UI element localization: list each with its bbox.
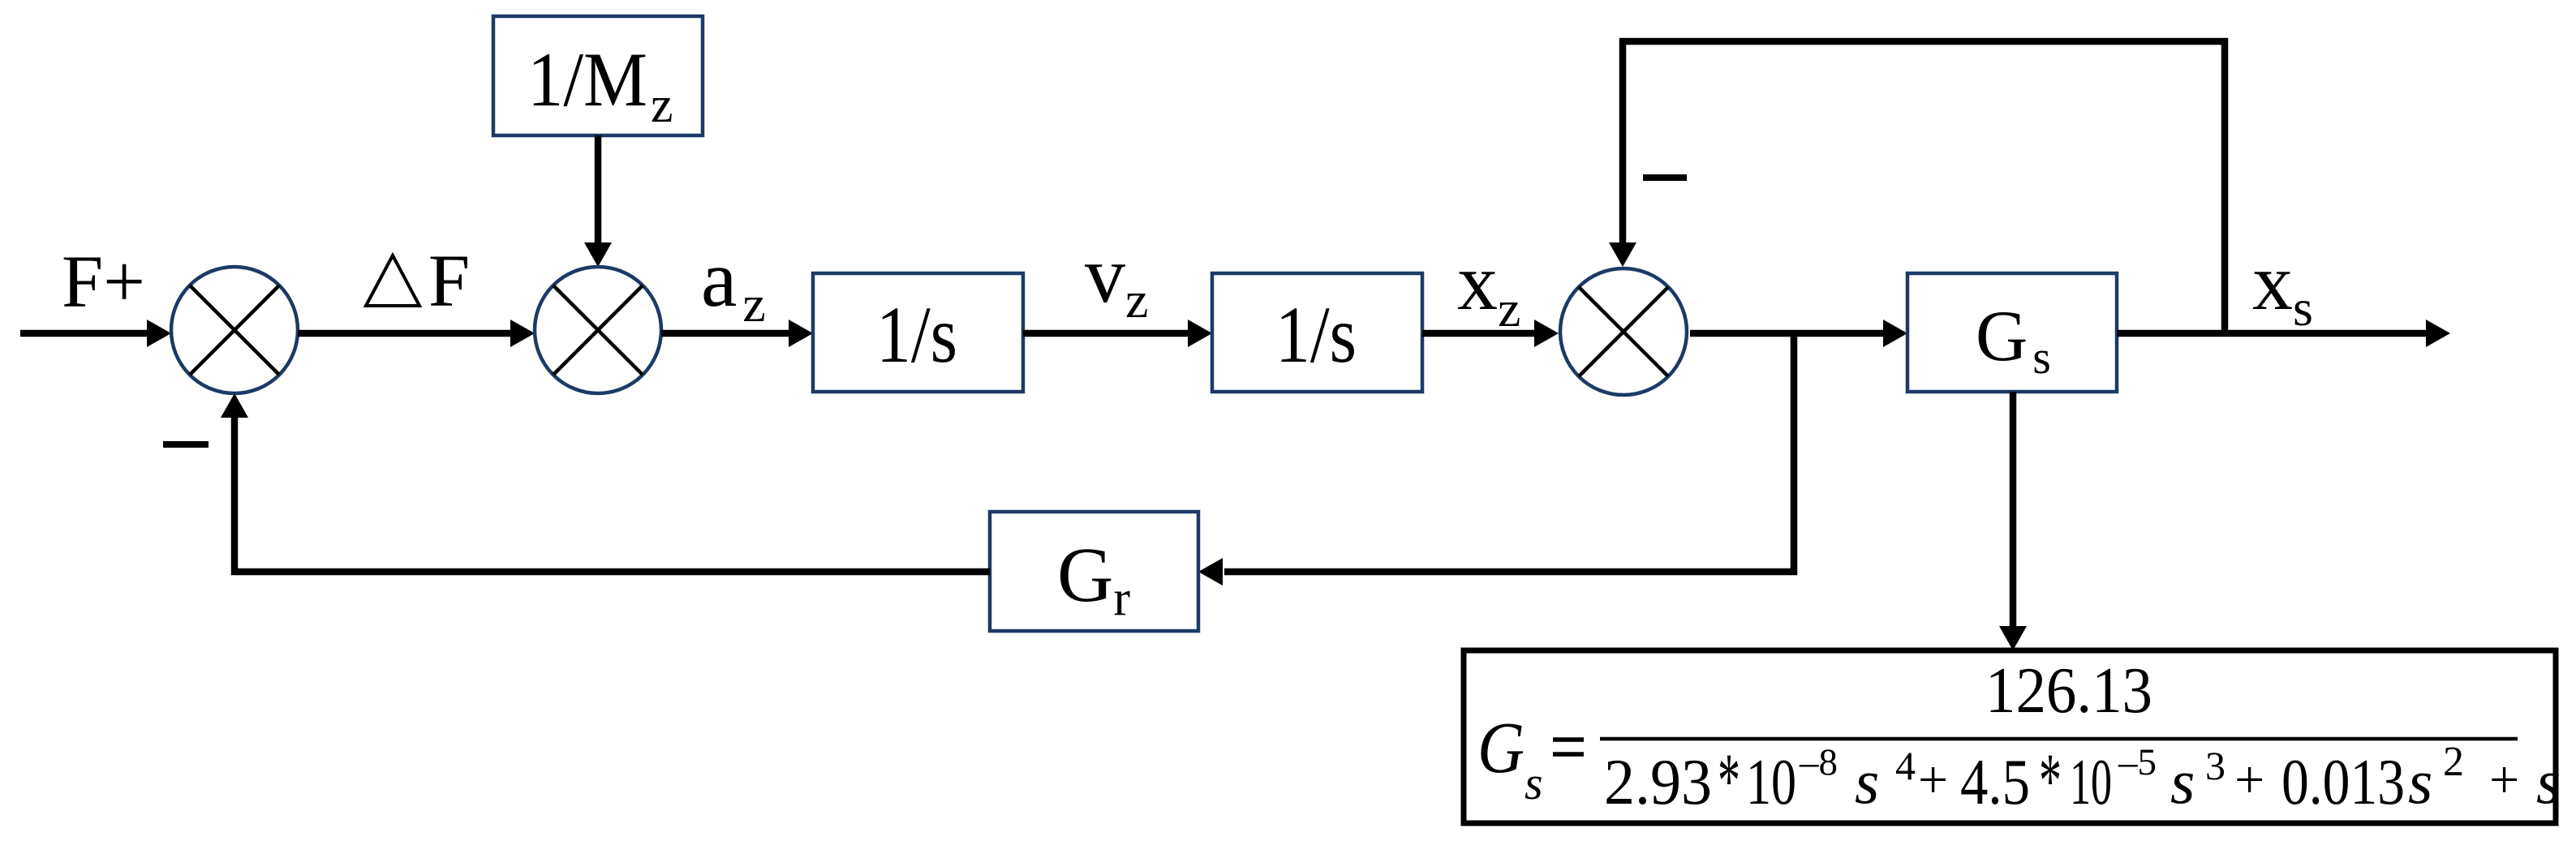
wire Gs down to formula box	[2010, 392, 2017, 628]
svg-text:+: +	[2489, 750, 2519, 809]
svg-text:s: s	[1525, 757, 1543, 809]
wire Gr to S1	[234, 416, 990, 572]
minus sign at S3	[1643, 174, 1687, 181]
svg-text:–5: –5	[2118, 741, 2157, 783]
svg-text:+: +	[2234, 750, 2264, 809]
block Gs	[1907, 273, 2117, 392]
svg-text:2: 2	[2443, 739, 2464, 785]
svg-text:s: s	[2408, 746, 2432, 817]
svg-text:10: 10	[1746, 745, 1796, 818]
block integrator 1/s first	[813, 273, 1023, 392]
block 1/Mz	[493, 16, 703, 135]
svg-text:s: s	[1855, 746, 1879, 817]
svg-text:*: *	[2039, 737, 2062, 824]
formula box Gs definition	[1464, 650, 2556, 823]
svg-text:3: 3	[2205, 743, 2226, 788]
wire 1/Mz to S2	[595, 135, 602, 244]
svg-text:F+: F+	[62, 240, 145, 323]
wire S2 to integrator 1	[661, 330, 790, 337]
svg-text:*: *	[1718, 737, 1740, 824]
wire Gs to output	[2117, 330, 2428, 337]
svg-text:G: G	[1477, 708, 1525, 788]
node dF label	[366, 255, 419, 306]
block Gr	[990, 512, 1198, 631]
svg-text:+: +	[1918, 750, 1948, 809]
svg-text:4.5: 4.5	[1960, 745, 2030, 818]
wire integrator2 to S3	[1422, 330, 1536, 337]
svg-text:F: F	[428, 239, 470, 322]
block integrator 1/s second	[1212, 273, 1422, 392]
svg-text:1/s: 1/s	[876, 290, 957, 380]
svg-text:1/M: 1/M	[527, 36, 647, 122]
wire S1 to S2	[298, 330, 512, 337]
minus sign at S1	[163, 441, 209, 448]
wire integrator1 to integrator2	[1023, 330, 1189, 337]
summing junction S2	[535, 267, 661, 393]
svg-text:0.013: 0.013	[2281, 745, 2405, 818]
wire S3 to Gs with tap	[1690, 330, 1885, 337]
svg-text:1/s: 1/s	[1275, 290, 1357, 380]
formula fraction bar	[1600, 737, 2518, 741]
svg-text:4: 4	[1895, 743, 1916, 788]
svg-text:126.13: 126.13	[1985, 655, 2152, 727]
svg-text:s: s	[2536, 746, 2561, 817]
wire feedback tap to Gr	[1224, 333, 1794, 572]
svg-text:s: s	[2170, 746, 2195, 817]
svg-text:10: 10	[2070, 745, 2112, 818]
svg-text:z: z	[651, 78, 673, 133]
svg-text:2.93: 2.93	[1604, 745, 1712, 818]
svg-text:–8: –8	[1799, 741, 1838, 783]
wire input F+	[20, 330, 148, 337]
summing junction S1	[171, 267, 298, 393]
summing junction S3	[1560, 268, 1687, 395]
wire outer feedback xs to S3	[1623, 41, 2225, 333]
